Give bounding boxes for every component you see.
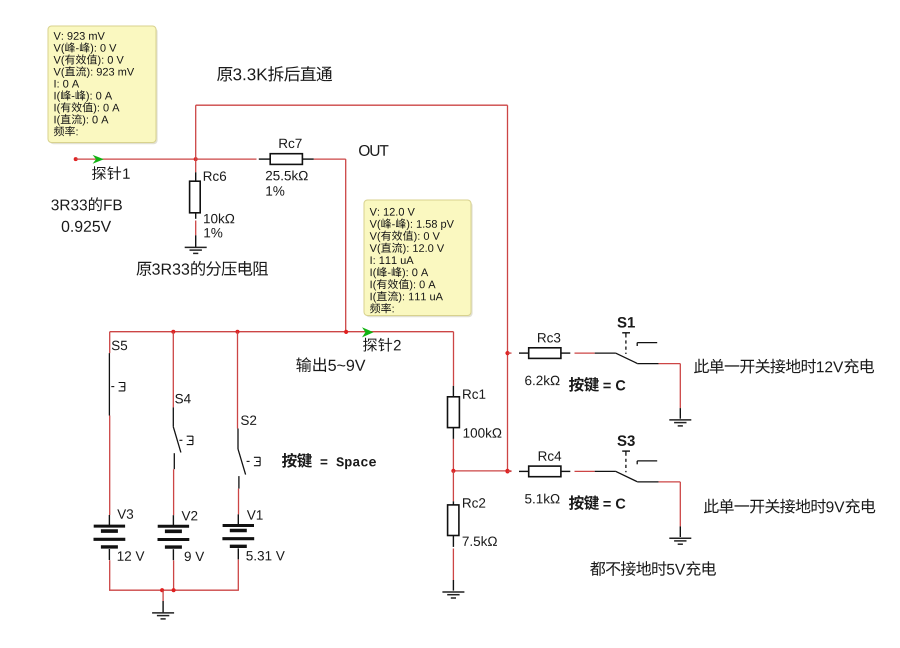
junction S4 branch bbox=[171, 330, 175, 334]
ground for switch S1 bbox=[669, 420, 691, 426]
label Rc3 value 6.2kΩ bbox=[525, 375, 559, 385]
wire V1 to bottom rail bbox=[237, 560, 239, 591]
label Rc1 bbox=[463, 390, 485, 399]
junction S2 branch bbox=[236, 330, 240, 334]
switch S1 actuator (dashed) bbox=[622, 333, 630, 354]
switch S3 actuator (dashed) bbox=[622, 451, 630, 472]
label V2 value 9 V bbox=[185, 552, 205, 562]
switch S2 key marker bbox=[247, 457, 261, 466]
wire bottom rail bbox=[109, 589, 239, 591]
ground below battery rail bbox=[152, 613, 174, 619]
junction divider right bbox=[505, 469, 509, 473]
switch S5 key marker bbox=[111, 382, 125, 391]
label V1 value 5.31 V bbox=[246, 551, 284, 561]
label Rc3 bbox=[538, 333, 560, 343]
label Rc1 value 100kΩ bbox=[464, 428, 502, 438]
wire S1 to ground bbox=[659, 364, 681, 409]
note 0.925V bbox=[62, 221, 111, 232]
wire stub Rc3 bbox=[508, 352, 512, 354]
label V2 bbox=[182, 511, 198, 520]
note 按键 = C (S3) bbox=[569, 495, 625, 510]
switch S3 top throw bbox=[637, 461, 657, 464]
resistor Rc7 pins bbox=[259, 158, 314, 160]
wire divider horizontal bbox=[453, 470, 511, 472]
switch S2 blade (open) bbox=[238, 449, 246, 475]
resistor Rc3 body bbox=[529, 348, 561, 359]
probe 1 endpoint dot bbox=[74, 157, 78, 161]
switch S1 bottom throw bbox=[637, 363, 658, 365]
label V3 value 12 V bbox=[118, 551, 145, 560]
junction 12V rail row 1 bbox=[505, 351, 509, 355]
label S4 bbox=[175, 394, 190, 404]
resistor Rc1 pins bbox=[452, 386, 454, 439]
ground stem below Rc6 bbox=[195, 235, 197, 247]
battery V3 bbox=[94, 515, 126, 560]
note 按键 = C (S1) bbox=[569, 377, 625, 392]
label Rc4 value 5.1kΩ bbox=[525, 494, 559, 504]
switch S3 bottom throw bbox=[637, 481, 658, 483]
wire V2 to bottom rail bbox=[173, 560, 175, 590]
wire Rc7 to OUT corner bbox=[314, 158, 346, 160]
note 原3R33的分压电阻 bbox=[137, 261, 268, 276]
label S2 bbox=[241, 415, 256, 425]
switch S4 key marker bbox=[179, 436, 193, 445]
junction divider left bbox=[451, 469, 455, 473]
label Rc6 value 10kΩ 1% bbox=[204, 214, 234, 238]
wire stub Rc4 bbox=[508, 470, 512, 472]
resistor Rc6 pins bbox=[195, 172, 197, 219]
label Rc2 bbox=[463, 498, 485, 508]
ground stem below Rc2 bbox=[452, 580, 454, 591]
switch S4 blade (open) bbox=[173, 427, 181, 453]
switch S1 top throw bbox=[637, 343, 657, 346]
resistor Rc2 body bbox=[448, 505, 459, 536]
wire ground stem bbox=[162, 590, 164, 601]
probe 探针2 arrow bbox=[362, 327, 374, 337]
wire S2 to V1 bbox=[238, 489, 240, 515]
resistor Rc3 pins bbox=[519, 352, 570, 354]
resistor Rc6 body bbox=[190, 181, 201, 213]
note 都不接地时5V充电 bbox=[590, 561, 716, 576]
wire rail to Rc1 bbox=[453, 332, 455, 386]
label V1 bbox=[247, 510, 263, 519]
wire OUT vertical bbox=[345, 159, 347, 332]
wire FB up to top rail bbox=[195, 105, 197, 172]
ground below Rc6 bbox=[185, 247, 207, 253]
wire S3 to ground bbox=[659, 482, 681, 527]
junction ground stem bbox=[160, 588, 164, 592]
ground stem battery rail bbox=[162, 601, 164, 613]
ground for switch S3 bbox=[669, 538, 691, 544]
wire FB node horizontal bbox=[76, 158, 196, 160]
wire Rc6 to ground bbox=[195, 221, 197, 236]
wire Rc4 to switch S3 bbox=[575, 470, 595, 472]
wire FB to Rc7 bbox=[196, 158, 257, 160]
wire S5 to V3 bbox=[109, 416, 111, 516]
ground below Rc2 bbox=[442, 592, 464, 598]
junction FB node bbox=[194, 157, 198, 161]
label S5 bbox=[112, 341, 127, 351]
label Rc7 value 25.5kΩ 1% bbox=[266, 171, 308, 196]
resistor Rc4 body bbox=[529, 466, 561, 477]
junction probe2 bbox=[344, 330, 348, 334]
switch S5 (closed) bbox=[108, 353, 110, 415]
switch S2 pins bbox=[237, 429, 240, 489]
ground stem S3 bbox=[679, 526, 681, 537]
resistor Rc7 body bbox=[270, 154, 302, 165]
ground stem S1 bbox=[679, 408, 681, 419]
switch S3 pole wire bbox=[595, 470, 616, 472]
label Rc2 value 7.5kΩ bbox=[463, 536, 497, 546]
wire S4 branch top bbox=[172, 332, 174, 408]
resistor Rc4 pins bbox=[519, 470, 570, 472]
probe label 探针1 bbox=[92, 166, 130, 180]
switch S1 blade bbox=[615, 353, 637, 364]
resistor Rc2 pins bbox=[452, 501, 454, 547]
junction 12V rail row 3 bbox=[505, 469, 509, 473]
wire Rc3 to switch S1 bbox=[575, 352, 595, 354]
wire S2 branch top bbox=[237, 332, 239, 429]
wire top rail horizontal bbox=[196, 104, 508, 106]
switch S4 pins bbox=[173, 407, 174, 469]
probe 探针1 arrow bbox=[93, 155, 104, 164]
note 此单一开关接地时9V充电 bbox=[704, 499, 875, 514]
label Rc4 bbox=[539, 451, 562, 460]
wire V3 to bottom rail bbox=[109, 560, 111, 590]
switch S1 pole wire bbox=[595, 352, 616, 354]
label S3 bbox=[617, 435, 634, 446]
note 3R33的FB bbox=[51, 197, 121, 211]
node label OUT bbox=[359, 145, 388, 156]
probe label 探针2 bbox=[363, 338, 401, 352]
wire S5 branch top bbox=[109, 332, 111, 353]
wire S4 to V2 bbox=[173, 469, 175, 515]
switch S3 blade bbox=[615, 471, 637, 482]
probe readout box for 探针2 bbox=[364, 200, 473, 317]
wire 12V rail vertical bbox=[507, 105, 509, 471]
label V3 bbox=[117, 509, 133, 519]
label Rc7 bbox=[279, 139, 301, 148]
note 按键 = Space bbox=[282, 453, 376, 469]
note 输出5~9V bbox=[296, 357, 365, 372]
wire Rc1 to divider node bbox=[452, 439, 454, 471]
label S1 bbox=[617, 317, 634, 328]
wire output rail horizontal bbox=[110, 331, 454, 333]
label Rc6 bbox=[204, 171, 226, 181]
resistor Rc1 body bbox=[448, 397, 460, 428]
note 原3.3K拆后直通 bbox=[217, 66, 332, 82]
note 此单一开关接地时12V充电 bbox=[694, 359, 874, 374]
battery V2 bbox=[158, 515, 190, 560]
probe readout box for 探针1 bbox=[48, 26, 158, 144]
junction V2 bottom bbox=[172, 588, 176, 592]
wire Rc2 to ground bbox=[452, 549, 454, 581]
wire divider to Rc2 bbox=[452, 471, 454, 501]
battery V1 bbox=[222, 514, 254, 559]
